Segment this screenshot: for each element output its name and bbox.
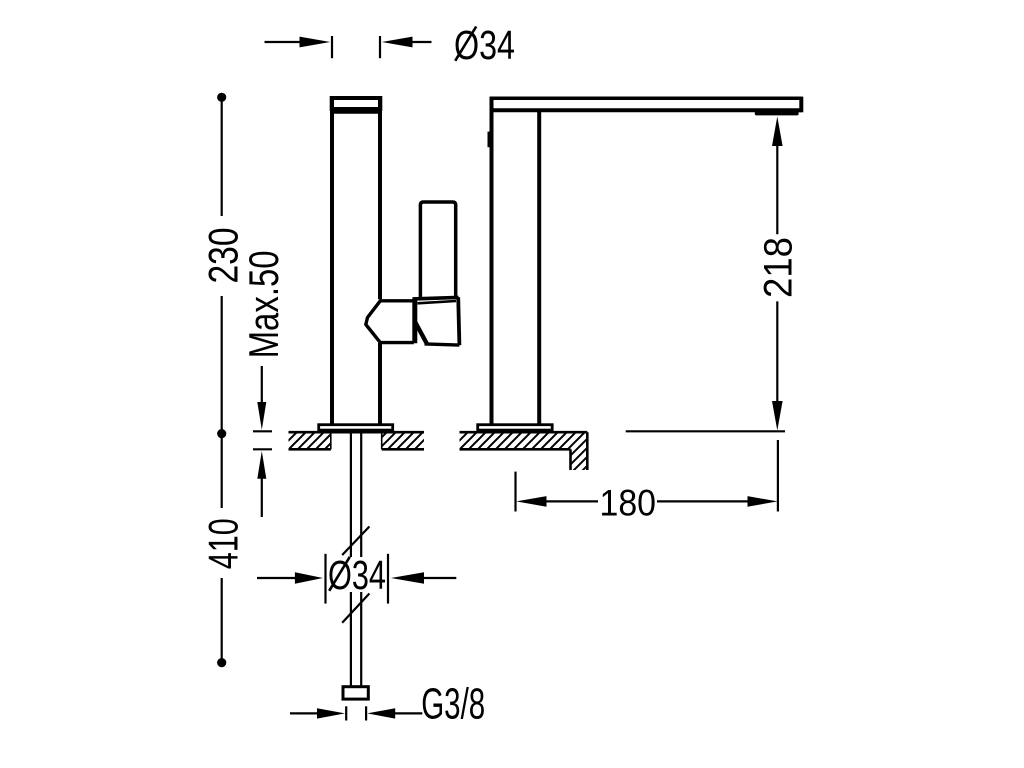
column left edge bump bbox=[488, 132, 490, 148]
faucet front view: top cap bbox=[330, 98, 382, 111]
cartridge housing bbox=[413, 297, 460, 345]
deck left slab top line bbox=[289, 431, 425, 434]
svg-text:Max.50: Max.50 bbox=[240, 250, 287, 358]
deck right outer edge bbox=[586, 432, 589, 470]
G3/8 connector nut bbox=[343, 687, 368, 699]
dimension 230 bbox=[200, 93, 247, 439]
svg-text:O34: O34 bbox=[328, 552, 386, 598]
svg-text:218: 218 bbox=[757, 237, 801, 298]
dimension 410 bbox=[200, 434, 247, 668]
deck right slab hatch bbox=[460, 433, 588, 470]
dimension 180 bbox=[516, 440, 778, 524]
deck left slab hatch right block bbox=[382, 433, 424, 448]
svg-text:G3/8: G3/8 bbox=[421, 681, 485, 729]
pipe break slash lower bbox=[342, 594, 369, 623]
faucet side view: spout bar bbox=[490, 97, 802, 113]
svg-text:180: 180 bbox=[600, 482, 657, 524]
faucet side view: base flange bbox=[478, 425, 553, 430]
pipe break slash upper bbox=[342, 527, 369, 556]
svg-text:410: 410 bbox=[200, 518, 247, 569]
deck reference line (right) bbox=[626, 430, 785, 432]
svg-text:O34: O34 bbox=[454, 22, 515, 68]
deck hole edges bbox=[330, 432, 332, 449]
handle front (pentagon) bbox=[366, 301, 414, 343]
faucet front view: base flange bbox=[319, 425, 393, 430]
faucet side view: column right edge bbox=[537, 110, 541, 425]
faucet front view: body left edge bbox=[330, 100, 334, 426]
aerator outlet bbox=[755, 110, 799, 115]
deck right slab top line bbox=[460, 431, 588, 434]
deck left slab bottom lines bbox=[289, 448, 331, 451]
dimension top Ø34 bbox=[265, 22, 516, 68]
deck right step inner edge bbox=[569, 449, 572, 470]
supply pipe bbox=[351, 431, 361, 686]
handle lever bbox=[420, 202, 455, 299]
dimension Max.50 bbox=[240, 250, 287, 517]
handle divider bbox=[412, 299, 417, 344]
dimension 218 bbox=[757, 117, 801, 431]
deck right slab bottom line bbox=[460, 448, 571, 451]
faucet side view: column left edge bbox=[490, 97, 494, 425]
deck left slab hatch left block bbox=[289, 433, 331, 448]
dimension G3/8 bbox=[290, 681, 485, 729]
dimension mid Ø34 bbox=[257, 552, 456, 604]
faucet front view: body right edge (interrupted by handle) bbox=[378, 100, 382, 299]
